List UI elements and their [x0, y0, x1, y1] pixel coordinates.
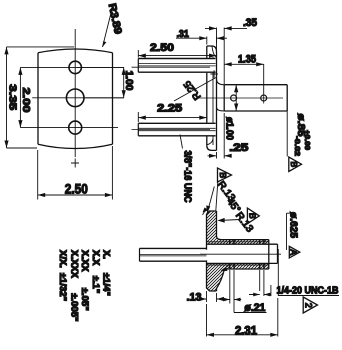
svg-text:B: B [218, 172, 228, 178]
fillet top flange to hub R.25 [217, 79, 225, 85]
hole H1 top [69, 61, 81, 73]
svg-text:ø.625: ø.625 [288, 212, 300, 238]
dim 2.50 top line [138, 50, 216, 58]
section cross hole V1 walls [230, 240, 234, 269]
dim 2.50 bottom ext lines [38, 146, 113, 200]
svg-text:.35: .35 [243, 17, 257, 29]
svg-text:±.1": ±.1" [90, 276, 101, 294]
dim 2.50 bottom arrows [38, 193, 113, 197]
fillet bottom flange to hub [217, 107, 225, 111]
dim .31 lines [176, 37, 227, 39]
flag 2b [247, 208, 259, 224]
cross hole V2 [261, 95, 267, 101]
side flange top cap [207, 46, 217, 52]
flag 1 leader [216, 182, 218, 211]
section centerline [200, 253, 281, 255]
section stud left bar [140, 248, 207, 261]
section hub outer bottom [225, 268, 269, 270]
section bore top [207, 243, 278, 245]
fillet leader arrow bottom [222, 266, 229, 271]
hole H2 middle [66, 89, 84, 107]
hole H2 centerline [32, 97, 124, 99]
dim 2.50 top arrows [138, 54, 216, 58]
side flange left face [206, 46, 208, 145]
label R.13 second leader [219, 220, 241, 221]
section flange outline [207, 211, 225, 291]
dim o1.00 arrows [234, 85, 238, 111]
dim 1.00 line [77, 67, 124, 97]
svg-text:2.50: 2.50 [150, 42, 174, 54]
dim 2.25 line [138, 112, 207, 122]
svg-text:±1/32": ±1/32" [57, 273, 68, 301]
flag 1 above section [218, 168, 232, 182]
dim 1.35 line [224, 64, 264, 94]
dim 3.35 line [7, 47, 75, 148]
stud S2 centerline [132, 128, 211, 130]
dim o.21 second hole arrows [249, 294, 271, 296]
svg-text:ø1.00: ø1.00 [224, 117, 236, 140]
svg-text:±1/4": ±1/4" [101, 273, 112, 296]
svg-text:1/4-20 UNC-1B: 1/4-20 UNC-1B [277, 285, 339, 297]
hole H1 centerline [20, 66, 124, 68]
hole H3 centerline [20, 127, 118, 129]
hub centerline [197, 97, 283, 99]
svg-text:2: 2 [304, 303, 314, 308]
dim .35 lines [205, 27, 247, 29]
stud S2 bottom body [138, 123, 215, 137]
hole H3 bottom [69, 121, 82, 134]
side flange bottom cap inner arc [207, 139, 213, 145]
dim 2.31 line [207, 334, 278, 336]
svg-text:1.00: 1.00 [123, 71, 135, 91]
svg-text:-0.02: -0.02 [293, 136, 302, 156]
leader R3.89 [103, 11, 112, 47]
svg-text:X.: X. [101, 250, 112, 259]
svg-text:3.35: 3.35 [7, 84, 19, 110]
section bottom material hatched [166, 236, 323, 300]
side flange bottom cap [207, 145, 217, 150]
fillet center mark [210, 70, 218, 78]
svg-text:B: B [289, 161, 299, 167]
dim 2.50 bottom line [38, 194, 113, 196]
dim 2.25 arrows [138, 116, 207, 120]
section bore bottom [207, 262, 278, 264]
svg-text:X/X.: X/X. [57, 250, 68, 268]
svg-text:1.35: 1.35 [238, 54, 256, 66]
flag 2 below note [303, 297, 317, 313]
stud S1 centerline [132, 66, 211, 68]
svg-text:2.00: 2.00 [20, 88, 32, 113]
section cross hole V2 walls [260, 240, 264, 269]
dim 2.31 ext lines [207, 298, 278, 337]
svg-text:+0.00: +0.00 [303, 130, 312, 150]
section thread line bottom [207, 264, 269, 266]
dim 2.31 arrows [207, 333, 278, 337]
hub top edge [224, 84, 287, 86]
section hub outer top [221, 239, 269, 241]
svg-text:2.31: 2.31 [235, 325, 258, 337]
svg-text:A: A [289, 249, 299, 255]
stud S1 top body [138, 58, 215, 73]
hub right face [286, 85, 288, 111]
section thread line top [207, 241, 269, 243]
front view centerline bottom tick [71, 159, 79, 168]
dim .31 ext lines [207, 37, 217, 50]
svg-text:X.XX: X.XX [79, 250, 90, 272]
svg-text:±.05": ±.05" [79, 288, 90, 311]
dim 2.00 arrows [18, 67, 22, 127]
dim .35 arrows [209, 26, 232, 30]
note 1/4-20 leader [278, 249, 339, 296]
hub left face [223, 85, 225, 111]
dim o.21 shelf [234, 312, 267, 314]
note 3/8-16 UNC leader [180, 135, 183, 149]
svg-text:3/8"-16 UNC: 3/8"-16 UNC [182, 151, 194, 203]
svg-text:2.50: 2.50 [65, 181, 88, 197]
cross hole V1 [231, 95, 237, 101]
svg-text:R.25: R.25 [182, 78, 204, 102]
dim o.85 ext line [286, 111, 288, 157]
leader R.25 [174, 78, 216, 102]
section thread end face [268, 240, 270, 269]
dim .25 side arrows [209, 154, 232, 158]
dim .13 ext lines [207, 291, 217, 302]
svg-text:±.005": ±.005" [68, 293, 79, 321]
dim o.21 hole2 ext lines [260, 270, 271, 296]
dim .25 side lines [208, 155, 232, 157]
side flange top cap inner arc [212, 46, 217, 57]
hub bottom edge [224, 110, 287, 112]
dim o.625 leader [287, 213, 296, 250]
label R.13 leader [207, 187, 214, 214]
dim o.21 ext lines [230, 270, 234, 313]
svg-text:X.X: X.X [90, 250, 101, 266]
dim .35 ext lines [217, 28, 225, 85]
side flange right face [216, 52, 218, 151]
svg-text:.25: .25 [229, 142, 248, 154]
svg-text:ø.21: ø.21 [244, 302, 265, 314]
svg-text:R3.89: R3.89 [106, 2, 124, 35]
dim 1.00 arrows [122, 67, 126, 97]
dim .31 arrows [199, 36, 224, 40]
section top material hatched [166, 186, 323, 250]
dim o.21 arrows [222, 299, 241, 301]
svg-text:2.25: 2.25 [157, 103, 182, 115]
svg-text:.31: .31 [176, 28, 189, 40]
svg-text:B: B [247, 213, 257, 219]
section bore end face [277, 244, 279, 263]
dim 1.35 arrows [224, 62, 264, 66]
svg-text:X.XXX: X.XXX [68, 250, 79, 279]
datum flag A [289, 246, 300, 258]
dim .25 side ext lines [217, 113, 225, 159]
front view vertical centerline [74, 29, 76, 157]
side flange inner line [212, 57, 214, 145]
datum flag B right [289, 157, 302, 172]
dim 2.00 line [19, 67, 21, 127]
svg-text:.13: .13 [187, 292, 202, 304]
front view plate outline [38, 49, 113, 149]
dim o1.00 line [235, 85, 237, 111]
dim 3.35 arrows [4, 47, 8, 148]
corner swoosh arc at flange top-left [203, 210, 209, 215]
dim .13 arrows [196, 298, 226, 300]
